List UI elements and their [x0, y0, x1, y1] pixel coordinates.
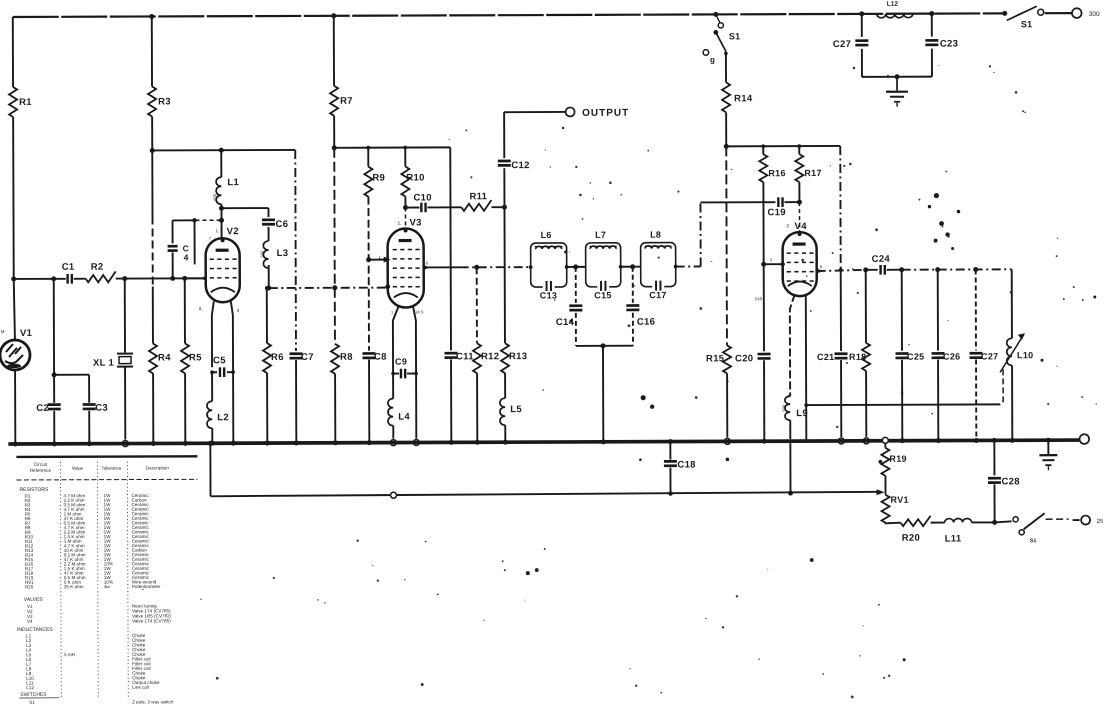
wire R7 top [331, 13, 336, 86]
svg-text:C8: C8 [374, 352, 387, 363]
wire C21 mid [840, 270, 842, 351]
svg-text:V2: V2 [227, 226, 239, 237]
svg-text:R1: R1 [19, 97, 32, 108]
svg-text:Reference: Reference [30, 468, 52, 473]
resistor R12 [473, 343, 499, 373]
svg-text:C12: C12 [511, 160, 529, 171]
svg-text:R14: R14 [734, 93, 753, 104]
resistor R11 [461, 191, 491, 211]
inductor L5 [500, 398, 522, 425]
wire R5 top [182, 276, 187, 344]
resistor R7 [330, 86, 353, 116]
node junction R1/C1 [11, 276, 16, 281]
svg-text:L1: L1 [227, 177, 239, 188]
svg-text:L3: L3 [277, 248, 289, 259]
capacitor C27 (top) [833, 39, 869, 50]
wire R10 lower [403, 197, 408, 211]
capacitor C23 [925, 39, 958, 50]
svg-text:R13: R13 [509, 351, 527, 362]
svg-text:INDUCTANCES: INDUCTANCES [17, 627, 53, 633]
svg-text:C20: C20 [735, 353, 753, 364]
svg-text:V1: V1 [20, 328, 33, 339]
wire anode feed V2 [152, 147, 295, 153]
svg-text:S1: S1 [1021, 19, 1033, 29]
resistor R6 [263, 343, 284, 373]
capacitor C9 [391, 357, 418, 379]
wire C23 branch [929, 11, 934, 37]
svg-text:R4: R4 [158, 352, 171, 363]
capacitor C25 [896, 352, 925, 362]
wire grid stub [194, 220, 196, 264]
switch S1 (HT pole) [703, 12, 741, 65]
wire V3 cathode lead left [393, 306, 399, 399]
wire L8 out [674, 265, 701, 269]
svg-text:R11: R11 [469, 191, 487, 202]
wire R17 top [798, 146, 800, 154]
wire L1-C6 link [221, 207, 268, 209]
ground (top centre) [886, 77, 908, 107]
wire C5 left link [212, 371, 217, 373]
capacitor C8 [362, 352, 386, 363]
wire C18 bottom [669, 468, 671, 494]
svg-text:C23: C23 [940, 39, 958, 50]
wire R1 top [12, 17, 14, 87]
wire C28 top [992, 438, 997, 476]
svg-text:L8: L8 [650, 230, 661, 240]
svg-text:R15: R15 [706, 353, 725, 364]
svg-text:R16: R16 [768, 168, 785, 178]
wire C4 lower [172, 252, 174, 278]
svg-text:Line coil: Line coil [132, 685, 149, 690]
capacitor C7 [289, 352, 313, 363]
pin numbers V2 [199, 236, 240, 313]
ground (right) [1039, 455, 1057, 470]
svg-text:C10: C10 [413, 192, 431, 203]
terminal output right [1081, 515, 1104, 525]
wire R12 top [474, 265, 479, 344]
svg-text:R2: R2 [91, 262, 104, 273]
svg-text:R18: R18 [849, 352, 866, 362]
wire L1 bottom [219, 204, 224, 238]
wire RV1 bottom [886, 522, 901, 525]
capacitor C11 [444, 351, 474, 362]
svg-text:M-: M- [1, 329, 7, 334]
wire ground stem [1046, 438, 1051, 455]
wire R19 top [882, 437, 888, 447]
inductor L3 [260, 241, 289, 268]
svg-text:R19: R19 [889, 454, 906, 464]
resistor R16 [759, 154, 786, 182]
wire R13 top [503, 207, 505, 343]
svg-text:C27: C27 [981, 351, 998, 361]
wire C18 top [668, 439, 673, 460]
wire R3 top [149, 14, 154, 87]
svg-text:V4: V4 [795, 221, 808, 232]
wire R16 lower [761, 182, 767, 351]
capacitor C24 [866, 254, 891, 275]
resistor R20 [901, 516, 931, 544]
potentiometer RV1 [882, 495, 909, 523]
svg-text:L12: L12 [26, 685, 34, 690]
svg-text:R7: R7 [340, 96, 353, 107]
svg-text:300: 300 [1089, 11, 1100, 18]
wire R15 bottom [724, 373, 730, 444]
wire C6-L3 [268, 227, 270, 241]
crystal XL1 [93, 354, 133, 369]
wire V2 grid entry [185, 276, 207, 280]
capacitor C2 [36, 403, 61, 414]
svg-text:4: 4 [184, 252, 189, 262]
capacitor C4 [168, 243, 189, 262]
wire C8 bottom [367, 360, 372, 446]
wire R6 top [265, 286, 269, 343]
svg-text:2,: 2, [398, 221, 402, 226]
svg-text:C26: C26 [943, 352, 960, 362]
wire L2 bottom [210, 428, 215, 446]
wire C10-R11 [427, 206, 461, 208]
svg-text:Description: Description [146, 465, 169, 470]
node junction C2/C3 [52, 372, 57, 377]
wire L6-L7 [567, 266, 586, 268]
resistor R2 [86, 262, 116, 283]
wire feedback line [211, 490, 882, 498]
wire C2-C3 link [54, 375, 89, 403]
svg-text:C19: C19 [767, 207, 785, 218]
wire R9 lower [366, 197, 372, 351]
wire L10 tap [1000, 369, 1003, 404]
resistor R13 [501, 343, 527, 373]
svg-text:OUTPUT: OUTPUT [582, 108, 629, 119]
capacitor C16 [626, 305, 655, 327]
node junction L7 out [619, 264, 635, 269]
wire R16 top [762, 146, 764, 154]
svg-text:R9: R9 [372, 173, 385, 184]
capacitor C19 [767, 197, 785, 218]
wire C27b top [975, 269, 977, 350]
wire C21 top [839, 146, 841, 270]
svg-text:L2: L2 [217, 412, 229, 423]
wire C14 bottom [576, 313, 603, 346]
svg-text:RESISTORS: RESISTORS [19, 487, 48, 493]
wire R19-RV1 [884, 476, 886, 495]
capacitor C21 [817, 352, 848, 362]
svg-text:500: 500 [781, 404, 786, 411]
svg-text:5 mH: 5 mH [64, 652, 75, 657]
wire R6 bottom [265, 373, 270, 446]
wire input line [14, 278, 66, 280]
wire feedback drop [208, 441, 213, 497]
svg-text:C16: C16 [637, 317, 655, 328]
wire C27 branch [859, 11, 864, 37]
resistor R14 [722, 82, 753, 112]
svg-text:14 5: 14 5 [415, 309, 424, 314]
wire anode feed V4 [726, 144, 840, 148]
wire C7 top [294, 150, 297, 351]
svg-text:500: 500 [260, 250, 265, 258]
svg-text:C15: C15 [594, 290, 611, 300]
neon V1 [0, 328, 33, 370]
wire V2 cathode lead right [230, 301, 236, 446]
wire C25 bottom [900, 360, 905, 444]
wire V3 plate line [423, 264, 533, 270]
wire L5 bottom [503, 425, 508, 445]
capacitor C5 [213, 355, 226, 377]
wire S1-R14 [724, 51, 728, 82]
capacitor C26 [932, 352, 961, 362]
svg-text:C28: C28 [1001, 476, 1019, 487]
svg-text:R17: R17 [804, 168, 821, 178]
wire R5 bottom [183, 373, 188, 446]
wire anode feed V3 [334, 145, 450, 149]
svg-text:C14: C14 [556, 317, 575, 328]
wire L9 lower [789, 420, 791, 439]
wire C14 top [575, 267, 577, 303]
wire C4 top link [173, 218, 225, 223]
valve V4 [783, 221, 817, 296]
capacitor C12 [498, 160, 530, 171]
wire V1 top [14, 279, 15, 340]
svg-text:C13: C13 [540, 290, 557, 300]
svg-text:VALVES: VALVES [24, 597, 43, 603]
svg-text:25: 25 [1097, 519, 1104, 525]
capacitor C10 [405, 192, 431, 212]
wire V4 plate line [816, 267, 869, 274]
svg-text:8,: 8, [199, 306, 203, 311]
wire R11 right [491, 205, 507, 210]
wire R8 bottom [333, 374, 338, 446]
inductor L2 [206, 401, 229, 428]
svg-text:L11: L11 [945, 534, 962, 545]
wire R7-R8 link [333, 148, 336, 344]
svg-text:S1: S1 [729, 31, 741, 41]
filter tank L6/C13 [531, 230, 567, 301]
svg-text:V4: V4 [27, 619, 33, 624]
wire L4 bottom [390, 426, 396, 446]
wire XL1 top [124, 279, 126, 353]
svg-text:R12: R12 [481, 351, 499, 362]
inductor L4 [387, 399, 410, 426]
node junction R3/anode line [150, 148, 155, 153]
svg-text:C5: C5 [213, 355, 226, 366]
wire V4 grid entry [764, 262, 785, 266]
node junction XL1 top [122, 276, 127, 281]
parts table [16, 456, 198, 704]
wire R20-L11 [931, 522, 945, 524]
node junction C5 left [210, 370, 214, 374]
svg-text:Valve 1T4 (CV785): Valve 1T4 (CV785) [132, 618, 171, 623]
wire L3 bottom [268, 265, 270, 288]
wire C24 right rail [887, 267, 1012, 272]
wire C25 top [901, 270, 903, 351]
svg-text:R5: R5 [189, 352, 202, 363]
wire C5 right link [227, 370, 235, 374]
ground bus [8, 440, 1079, 444]
wire L1 top [220, 150, 222, 177]
terminal HT+ 300V top right [1072, 8, 1100, 18]
capacitor C18 [664, 459, 696, 470]
wire C19-V4 grid node [784, 200, 802, 205]
wire V3 cathode lead right [413, 305, 420, 445]
svg-text:4w: 4w [104, 584, 111, 589]
node junction V4 cathode net [804, 403, 808, 407]
wire output riser [503, 112, 505, 158]
wire V4 cathode lead left [790, 294, 795, 396]
wire R12 bottom [475, 373, 480, 445]
svg-text:C3: C3 [95, 403, 108, 414]
wire L2 top [211, 372, 213, 401]
wire top supply rail [13, 13, 1072, 17]
wire C1-R2 [74, 278, 86, 280]
node junction filter ground [600, 343, 605, 348]
wire R1 bottom [12, 117, 15, 279]
svg-text:R10: R10 [406, 172, 424, 183]
resistor R5 [181, 343, 202, 373]
terminal OUTPUT [566, 107, 630, 119]
node junction C4 bottom [170, 276, 175, 281]
wire R15 top [725, 146, 728, 345]
svg-text:Value: Value [72, 466, 84, 471]
wire filter out riser [700, 202, 775, 266]
node junction R7 [332, 145, 337, 150]
node arrow into RV1 [877, 489, 885, 495]
wire R18 top [865, 270, 867, 343]
svg-text:S1: S1 [1030, 538, 1037, 544]
switch S1 (top right pole) [1002, 6, 1044, 29]
wire R17 to V4 anode [798, 202, 800, 231]
wire R14 bottom [725, 112, 727, 146]
wire C28 bottom [993, 484, 995, 522]
svg-text:500: 500 [212, 193, 217, 201]
svg-text:Circuit: Circuit [34, 462, 48, 467]
svg-text:C6: C6 [276, 219, 289, 230]
wire coupling line V2-V3 [266, 284, 390, 290]
resistor R18 [849, 343, 870, 371]
wire C16 top [632, 267, 634, 303]
capacitor C6 [262, 219, 288, 230]
node junction R14 [724, 144, 729, 149]
capacitor C27 (right) [970, 351, 999, 361]
wire filter ground drop [600, 346, 605, 445]
switch S1 (output pole) [995, 513, 1045, 544]
capacitor C14 [556, 306, 583, 328]
wire XL1 bottom [122, 367, 128, 447]
svg-text:L6: L6 [541, 230, 552, 240]
svg-text:1,: 1, [216, 228, 220, 233]
wire R17 lower [798, 182, 800, 202]
wire C4 upper [172, 220, 174, 243]
wire output horizontal [504, 111, 565, 113]
choke L12 on supply rail [877, 1, 913, 18]
capacitor C20 [735, 353, 771, 364]
terminal chassis right [1080, 434, 1090, 444]
svg-text:g: g [710, 55, 715, 64]
resistor R17 [795, 154, 822, 182]
resistor R3 [148, 86, 171, 116]
inductor L10 (variable) [1000, 333, 1034, 372]
svg-text:L12: L12 [887, 1, 899, 8]
wire V2 cathode lead left [212, 301, 214, 367]
wire C11 bottom [449, 359, 454, 445]
wire C27 bottom [861, 49, 863, 77]
wire R13-L5 [504, 373, 506, 398]
svg-text:R6: R6 [271, 352, 284, 363]
wire C16 bottom [603, 313, 633, 346]
resistor R19 [881, 448, 907, 476]
svg-text:SWITCHES: SWITCHES [20, 692, 47, 698]
svg-text:C25: C25 [907, 352, 924, 362]
wire L10 bottom [1010, 365, 1015, 443]
node junction C2 top [51, 276, 56, 281]
wire C3 bottom [87, 411, 92, 447]
capacitor C3 [83, 403, 108, 414]
svg-text:RV1: RV1 [891, 495, 909, 505]
wire C11 top [449, 147, 452, 350]
svg-text:C9: C9 [395, 357, 407, 367]
wire R2 to V2 grid [116, 277, 206, 279]
wire R18 bottom [863, 371, 869, 444]
wire R10 to V3 anode [404, 208, 406, 228]
wire R7 bottom [333, 116, 335, 148]
pin numbers V3 [379, 254, 429, 315]
svg-text:V3: V3 [410, 217, 422, 228]
wire C2 branch [53, 279, 55, 403]
wire V1 bottom [13, 370, 18, 447]
wire C20 bottom [762, 360, 767, 444]
wire C6 top [267, 208, 269, 217]
svg-text:Potentiometer: Potentiometer [132, 584, 161, 589]
wire to terminal [1046, 519, 1080, 520]
svg-text:C27: C27 [833, 39, 851, 50]
wire C26 top [937, 270, 939, 351]
resistor R1 [9, 87, 32, 117]
wire R10 top [404, 148, 406, 167]
inductor L11 [945, 518, 972, 544]
resistor R9 [364, 167, 385, 197]
svg-text:L5: L5 [510, 404, 522, 415]
svg-text:C7: C7 [301, 352, 314, 363]
svg-text:Tolerance: Tolerance [101, 466, 121, 471]
svg-text:C17: C17 [649, 290, 666, 300]
svg-text:C18: C18 [677, 459, 695, 470]
wire C27b bottom [974, 359, 979, 443]
svg-text:2 pole, 3 way switch: 2 pole, 3 way switch [132, 699, 174, 704]
svg-text:C24: C24 [872, 254, 891, 265]
svg-text:C1: C1 [62, 262, 75, 273]
wire C26 bottom [936, 360, 941, 444]
wire C2 bottom [52, 411, 57, 447]
inductor L1 [212, 177, 239, 204]
svg-text:R3: R3 [158, 96, 171, 107]
svg-text:C21: C21 [817, 352, 834, 362]
resistor R4 [149, 343, 171, 373]
wire L9 to feedback [788, 443, 793, 496]
filter tank L8/C17 [641, 230, 676, 301]
filter tank L7/C15 [586, 230, 621, 301]
wire C21 bottom [838, 360, 844, 444]
svg-text:25 K ohm: 25 K ohm [64, 584, 84, 589]
scan speckle texture [140, 65, 1098, 701]
wire C12 bottom [503, 168, 505, 207]
svg-text:S1: S1 [29, 700, 35, 704]
svg-text:C2: C2 [36, 403, 49, 414]
wire L10 top [1011, 269, 1013, 338]
wire R9 top [367, 148, 369, 167]
svg-text:L4: L4 [398, 412, 410, 423]
valve V2 [206, 226, 240, 302]
svg-text:R20: R20 [902, 533, 920, 544]
resistor R10 [401, 166, 424, 196]
wire R4 bottom [151, 373, 156, 446]
